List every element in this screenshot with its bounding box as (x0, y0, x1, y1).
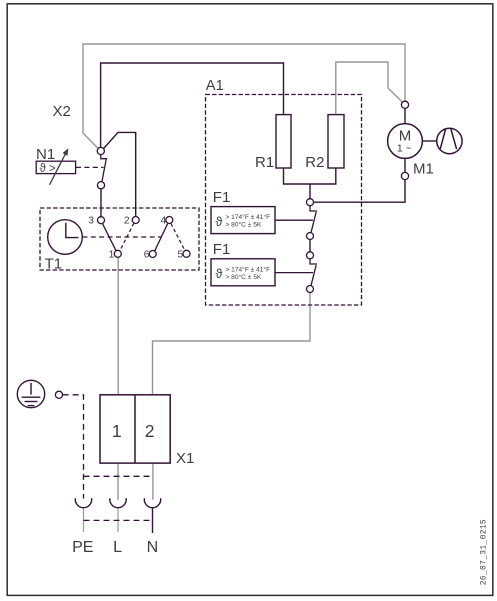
thermostat N1 box (36, 161, 75, 173)
protective earth symbol (17, 380, 44, 407)
L socket (110, 498, 126, 507)
svg-text:R2: R2 (305, 154, 324, 171)
svg-text:ϑ: ϑ (216, 215, 223, 229)
dashed separation line upper (84, 475, 153, 477)
wire: gray from R2 top to motor switch blade (336, 62, 403, 115)
T1 switch blade 6-4 (155, 224, 168, 252)
T1 dashed blade 2-1 (120, 223, 134, 251)
connector contact below motor (401, 172, 408, 179)
wire: inner dark loop X2 to R1 top (101, 63, 284, 147)
contact below switch 1 (307, 233, 314, 240)
junction contact above F1 chain (307, 199, 314, 206)
svg-text:2: 2 (145, 421, 155, 441)
T1 switch blade 3-1 (102, 223, 116, 251)
wire: motor to fan (422, 140, 436, 142)
wire: motor bottom to contact (404, 158, 406, 172)
dashed separation line lower (84, 519, 153, 521)
thermal switch blade of N1 (tick + blade) (101, 155, 107, 182)
thermal cutout F1 lower box (211, 259, 275, 286)
connector X2 lower contact (97, 182, 104, 189)
terminal block X1 (100, 395, 170, 463)
svg-text:2: 2 (124, 216, 130, 227)
svg-text:R1: R1 (255, 154, 274, 171)
wire: gray drop from T1 contact 1 to X1 terminal 1 (117, 257, 119, 394)
wire: outer gray loop from X2 to motor top contact (83, 44, 405, 149)
dashed control link N1 to switch (76, 166, 104, 168)
T1 contact 1 (114, 250, 121, 257)
fan symbol (437, 128, 462, 153)
svg-text:F1: F1 (213, 189, 231, 206)
T1 contact 2 (132, 217, 139, 224)
wire: L tail below socket (117, 507, 119, 532)
svg-text:3: 3 (88, 216, 94, 227)
connector X2 upper contact (97, 147, 104, 154)
earth contact circle (55, 391, 62, 398)
motor M1 circle (388, 124, 423, 159)
svg-text:> 174°F ± 41°F: > 174°F ± 41°F (226, 213, 271, 221)
svg-text:> 80°C ± 5K: > 80°C ± 5K (226, 273, 262, 281)
svg-text:F1: F1 (213, 241, 231, 258)
dashed PE wire (63, 395, 84, 499)
contact below switch 2 (307, 286, 314, 293)
thermal cutout switch 1 (tick + blade) (310, 206, 317, 233)
wire: link between cutouts (309, 240, 311, 252)
svg-text:1 ~: 1 ~ (397, 142, 412, 154)
resistor R1 (276, 115, 291, 168)
svg-text:26_07_31_0215: 26_07_31_0215 (480, 519, 489, 585)
timer T1 dashed box (40, 208, 199, 270)
svg-text:4: 4 (160, 216, 166, 227)
svg-text:5: 5 (177, 249, 183, 260)
svg-text:N: N (147, 539, 159, 556)
svg-text:PE: PE (72, 539, 93, 556)
connector contact above motor (401, 101, 408, 108)
wire: gray drop X1 terminal 2 to N plug pin (152, 463, 154, 500)
timer clock symbol (48, 220, 83, 255)
wire: dark drop to T1 contact 3 (100, 189, 102, 217)
wire: gray from F1 chain bottom to X1 terminal 2 (153, 293, 311, 395)
wire: R1 and R2 bottoms joined (284, 168, 336, 199)
wire: dark branch from X2 to T1 contact 2 (104, 132, 136, 216)
resistor R2 (328, 115, 344, 168)
svg-text:ϑ: ϑ (216, 267, 223, 281)
T1 contact 5 (183, 250, 190, 257)
dashed mechanical link from clock (82, 236, 161, 238)
svg-text:1: 1 (112, 421, 122, 441)
wire: F1 lower to blade (275, 272, 313, 274)
T1 contact 3 (98, 217, 105, 224)
wire: gray drop X1 terminal 1 to L plug pin (117, 463, 119, 500)
T1 contact 6 (149, 251, 156, 258)
N tail below socket (152, 507, 154, 533)
svg-text:T1: T1 (45, 256, 63, 273)
wire: contact to motor (404, 108, 406, 123)
svg-text:1: 1 (109, 249, 115, 260)
N socket (144, 498, 160, 507)
svg-text:N1: N1 (36, 146, 55, 163)
thermal cutout switch 2 (tick + blade) (310, 259, 317, 286)
svg-text:A1: A1 (206, 78, 224, 94)
contact above switch 2 (307, 252, 314, 259)
module A1 dashed box (206, 95, 362, 306)
PE socket (75, 498, 91, 507)
wire: motor bottom to F1 chain junction (314, 180, 406, 203)
svg-text:M1: M1 (413, 161, 434, 178)
thermal cutout F1 upper box (211, 207, 275, 234)
svg-text:6: 6 (144, 250, 150, 261)
wire: PE tail below socket (83, 507, 85, 532)
N1 adjustment arrow (50, 148, 69, 185)
svg-text:X1: X1 (176, 450, 194, 467)
T1 contact 4 (166, 217, 173, 224)
T1 dashed blade 4-5 (171, 223, 185, 251)
svg-text:> 174°F ± 41°F: > 174°F ± 41°F (226, 265, 271, 273)
svg-text:ϑ >: ϑ > (40, 163, 56, 175)
svg-text:X2: X2 (53, 103, 71, 120)
svg-text:L: L (113, 539, 122, 556)
svg-text:> 80°C ± 5K: > 80°C ± 5K (226, 221, 262, 229)
wire: F1 upper to blade (275, 219, 313, 221)
